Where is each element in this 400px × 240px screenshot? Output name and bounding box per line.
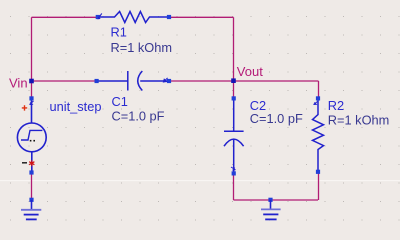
pin square C2 pin2 [232,96,236,100]
pin square R2 pin2 [316,170,320,174]
ground under source [21,198,41,220]
svg-text:unit_step: unit_step [50,99,102,114]
pin square V1 pin1 [29,96,33,100]
ground bottom center [261,198,281,220]
wire C2 bottom drop [233,174,235,201]
svg-text:C1: C1 [112,94,128,109]
resistor R2 [313,100,324,170]
svg-text:C=1.0 pF: C=1.0 pF [250,111,303,126]
pin arrow V1 pin1 [30,101,34,105]
wire source bottom to ground [31,173,33,201]
svg-text:R1: R1 [111,25,127,40]
pin square C1 pin2 [95,79,99,83]
wire mid rail Vin to C1 [32,80,97,82]
source V1 minus sign [22,162,27,164]
pin square V1 pin2 [29,170,33,174]
svg-text:C=1.0 pF: C=1.0 pF [112,109,165,124]
junction Vin [29,79,34,84]
wire Vout to C2 [233,81,235,99]
pin arrow R2 pin1 [314,102,318,105]
source V1 red asterisk [29,160,34,166]
pin arrow R1 pin1 [97,13,101,19]
pin arrow C1 pin1 [163,78,167,82]
source V1 plus sign [22,105,27,110]
wire mid rail C1 to Vout to R2 corner [169,80,319,82]
svg-text:R=1 kOhm: R=1 kOhm [111,40,173,55]
wire Vin to source [31,81,33,98]
pin square C1 pin1 [167,79,171,83]
svg-text:R2: R2 [328,98,344,113]
resistor R1 [100,12,169,23]
pin square R1 pin1 [96,15,100,19]
capacitor C2 [224,100,244,172]
capacitor C1 [99,71,168,91]
svg-text:Vin: Vin [9,75,28,90]
junction Vout [231,78,236,83]
pin square R1 pin2 [167,15,171,19]
wire bottom rail [234,199,319,201]
wire right vertical top rail to Vout [233,17,235,81]
pin arrow C2 pin1 [231,167,236,170]
svg-text:R=1 kOhm: R=1 kOhm [328,112,390,127]
source V1 unit step [17,100,46,171]
wire top rail left segment [32,16,99,18]
wire R2 top drop [318,81,320,98]
source V1 step waveform [21,130,42,140]
wire top-left vertical Vin to top rail [31,17,33,81]
wire R2 bottom drop [318,172,320,200]
wire top rail right segment [169,16,234,18]
pin square C2 pin1 [232,171,236,175]
source V1 waveform dots [30,140,35,142]
svg-text:Vout: Vout [237,64,263,79]
pin square R2 pin1 [316,96,320,100]
